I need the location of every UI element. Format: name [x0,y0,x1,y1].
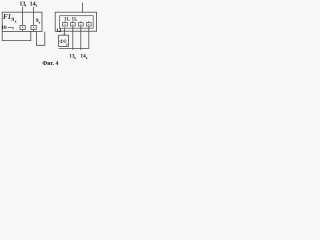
svg-text:F1: F1 [3,13,11,21]
node 13-1 label [19,1,26,7]
svg-text:k: k [86,56,88,60]
transistor Q4 (right box) [78,21,83,26]
output wire a [72,26,74,50]
right inner box [60,16,94,29]
wire from 10 [8,28,13,30]
transistor Q6 (right box, leftmost) [63,21,68,26]
svg-text:k: k [39,20,41,24]
svg-text:k: k [15,20,17,24]
wire loop below F1 right [36,31,44,45]
output wire b [80,26,82,50]
right outer box [55,12,96,31]
paper background [0,0,100,68]
transistor Q5 (right box) [86,21,91,26]
wire input 14 [33,7,35,26]
svg-text:10: 10 [1,25,7,31]
wire top entry to right block [82,3,84,13]
svg-text:p: p [65,42,68,46]
transistor Q3 (right box) [70,21,75,26]
svg-text:12: 12 [56,28,62,34]
bottom bus wire [59,47,90,49]
transistor Q2 (left box, right) [31,25,36,31]
block FGp box [59,35,69,46]
svg-text:k: k [74,56,76,60]
arrow into FGp block [63,27,65,33]
svg-text:Фиг. 4: Фиг. 4 [42,61,58,67]
block F1 box [2,12,42,31]
transistor Q1 (left box, left) [20,25,25,31]
wire loop below F1 left [2,31,31,40]
wire input 13 [22,7,24,26]
node 14-1 label [30,1,38,7]
svg-text:k: k [25,4,27,8]
svg-text:k: k [36,4,38,8]
output wire c [88,26,90,48]
